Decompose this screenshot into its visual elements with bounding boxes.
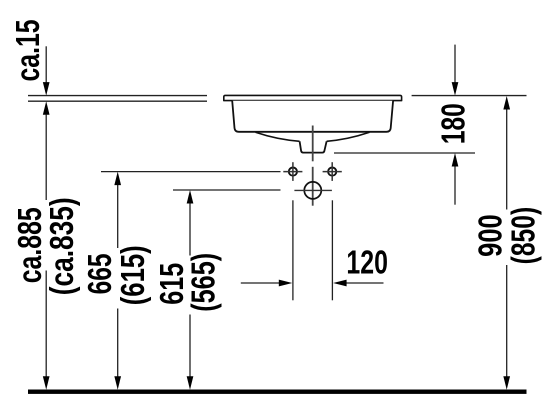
dimension 615 line and arrows [187, 190, 194, 390]
svg-text:180: 180 [436, 103, 473, 144]
svg-text:ca.15: ca.15 [10, 20, 47, 82]
bowl inner arc left [256, 132, 300, 141]
fixing hole right (circle with cross) [323, 162, 342, 181]
fixing hole left (circle with cross) [283, 162, 302, 181]
drain hole (large circle) [294, 182, 332, 199]
svg-text:665: 665 [82, 253, 119, 294]
svg-text:900: 900 [473, 214, 510, 257]
dimension ca.885 line and arrows [43, 115, 50, 390]
extension line below right fixing hole [331, 200, 333, 300]
svg-text:(ca.835): (ca.835) [44, 197, 81, 295]
extension line below left fixing hole [292, 200, 294, 300]
dimension 120 lines and arrows [241, 280, 384, 287]
svg-text:(615): (615) [115, 245, 152, 305]
svg-text:(565): (565) [186, 253, 223, 312]
svg-text:(850): (850) [506, 207, 543, 265]
dimension 180 line and arrows [452, 45, 459, 205]
washbasin bowl outline [232, 101, 393, 132]
bowl inner arc right [327, 132, 370, 141]
washbasin flange [224, 95, 402, 100]
countertop left double line [28, 96, 207, 102]
svg-text:120: 120 [346, 245, 388, 282]
floor line [28, 390, 527, 394]
dimension ca.15 line and arrows [43, 46, 50, 114]
extension line at drain outlet bottom level [334, 152, 475, 154]
extension line for 665 (fixing holes level) [101, 171, 281, 173]
drain outlet fitting [300, 141, 327, 152]
dimension 665 line and arrows [114, 172, 121, 390]
extension line right of basin at countertop level [412, 95, 527, 97]
center line through drain [312, 126, 314, 206]
dimension 900 line and arrows [503, 96, 510, 390]
extension line for 615 (drain center level) [173, 189, 281, 191]
